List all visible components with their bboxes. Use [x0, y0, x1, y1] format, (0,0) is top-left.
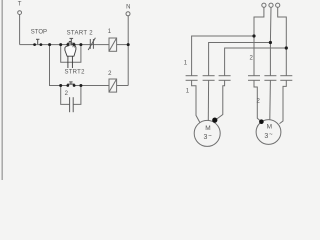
- wire motor 2 feeder middle: [269, 80, 272, 119]
- three-phase terminal L2: [269, 3, 273, 7]
- wire motor 2 feeder right: [280, 80, 287, 123]
- wire phase C vertical: [278, 7, 287, 75]
- wire NC contact to coil 1: [94, 44, 109, 46]
- svg-text:T: T: [18, 2, 22, 8]
- svg-text:STOP: STOP: [31, 29, 47, 35]
- node phase B tap: [269, 41, 272, 44]
- hand cursor finger lines: [73, 45, 75, 47]
- wire rung1 START left segment: [61, 44, 68, 46]
- node phase C tap: [285, 46, 288, 49]
- wire lower parallel branch: [61, 86, 70, 105]
- node motor 1 terminal: [212, 118, 217, 123]
- wire rung2 STRT2 right segment: [74, 85, 81, 87]
- wire rung1 through STOP to junction: [34, 44, 61, 46]
- pushbutton STOP (NC): [36, 39, 39, 44]
- wire rung1 left: [20, 44, 34, 46]
- terminal N: [126, 12, 130, 16]
- svg-text:~: ~: [269, 132, 273, 138]
- node START branch right: [79, 43, 82, 46]
- svg-text:~: ~: [208, 133, 212, 139]
- contactor 2 contacts (3 poles): [248, 76, 292, 81]
- node rung1 branch junction: [48, 43, 51, 46]
- node phase A tap: [252, 34, 255, 37]
- node STOP right terminal: [40, 43, 43, 46]
- wire coil 2 to N bus: [117, 85, 129, 87]
- wire rung1 START right segment: [74, 44, 81, 46]
- contact 2 (NC interlock): [88, 38, 95, 50]
- pushbutton START (NO) bridge and actuator: [67, 38, 75, 43]
- svg-text:STRT2: STRT2: [65, 70, 86, 76]
- node STRT2 right terminal: [73, 84, 76, 87]
- wire rung1 to NC contact: [81, 44, 94, 46]
- coil U1 "1": [109, 38, 117, 51]
- wire rung2 to coil 2: [81, 85, 109, 87]
- wire N bus: [127, 16, 129, 86]
- wire T bus: [19, 15, 21, 45]
- motor M2 text: [264, 124, 273, 140]
- coil U2 "2": [109, 79, 117, 92]
- node motor 2 terminal: [259, 119, 264, 124]
- wire tap line 1 to left branch: [192, 36, 254, 76]
- wire lower parallel branch right: [73, 86, 81, 105]
- svg-text:START: START: [67, 30, 88, 36]
- node STOP left terminal: [33, 43, 36, 46]
- contact STRT2 bridge and actuator: [67, 82, 75, 84]
- svg-text:M: M: [205, 125, 210, 132]
- wire coil 1 to N bus: [117, 44, 129, 46]
- wire phase B vertical: [269, 7, 272, 75]
- wire motor 1 feeder left: [192, 80, 200, 122]
- svg-text:3: 3: [203, 134, 207, 141]
- wire tap line 3 to left branch: [225, 48, 287, 76]
- node rung2 branch left: [59, 84, 62, 87]
- wire motor 1 feeder right: [215, 80, 224, 120]
- wire rung2 STRT2 left segment: [61, 85, 68, 87]
- contact 2 auxiliary (NO) plates: [70, 97, 74, 112]
- svg-text:N: N: [126, 5, 130, 11]
- motor M1: [194, 120, 220, 146]
- motor M1 text: [203, 125, 212, 141]
- wire motor 1 feeder middle: [207, 80, 209, 120]
- motor M2: [256, 120, 281, 145]
- hand cursor sleeve: [68, 56, 73, 68]
- wire tap line 2 to left branch: [209, 43, 271, 76]
- contactor 1 contacts (3 poles): [186, 76, 231, 81]
- node START branch left: [59, 43, 62, 46]
- three-phase terminal L3: [276, 3, 280, 7]
- node rung2 branch right: [79, 84, 82, 87]
- svg-text:M: M: [267, 124, 272, 131]
- wire phase A vertical: [254, 7, 264, 75]
- terminal T: [18, 11, 22, 15]
- node coil1 output: [127, 43, 130, 46]
- junction dots control circuit: [33, 34, 288, 124]
- node START left terminal: [66, 43, 69, 46]
- wire parallel branch around START: [61, 45, 81, 63]
- node START right terminal: [73, 43, 76, 46]
- wire motor 2 feeder left: [254, 80, 261, 121]
- node STRT2 left terminal: [66, 84, 69, 87]
- wire branch down to rung2: [50, 45, 61, 86]
- three-phase terminal L1: [262, 3, 266, 7]
- hand cursor over START: [65, 41, 76, 68]
- svg-text:3: 3: [264, 133, 268, 140]
